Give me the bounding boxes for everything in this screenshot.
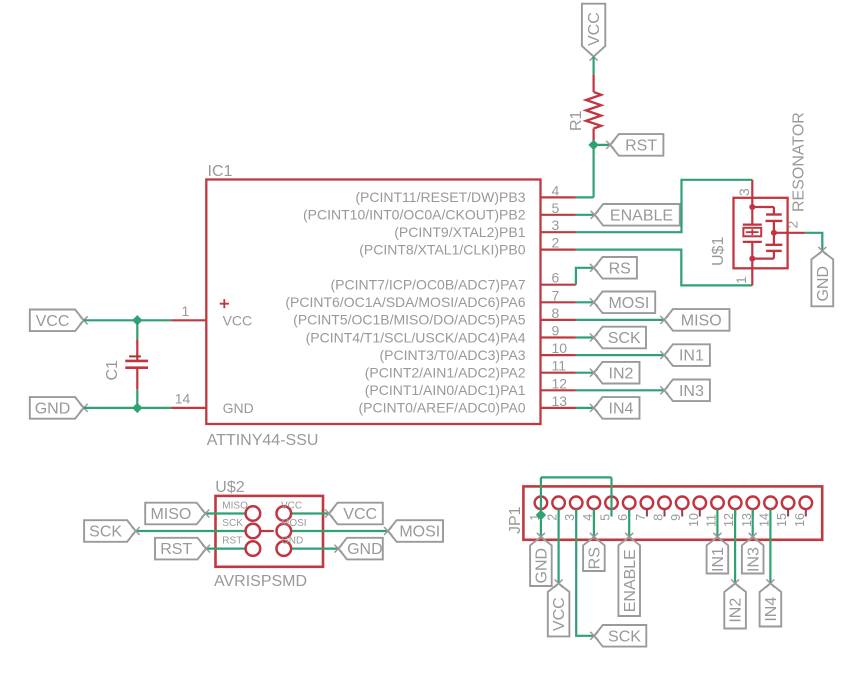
pin stub JP1 pin 8: [664, 509, 666, 516]
net flag SCK left: [84, 520, 136, 542]
svg-text:(PCINT3/T0/ADC3)PA3: (PCINT3/T0/ADC3)PA3: [380, 347, 526, 363]
pin stub SCK pad: [260, 530, 274, 532]
supply symbol VCC top: [582, 4, 605, 57]
pin stub JP1 pin 5: [611, 509, 613, 516]
svg-text:MOSI: MOSI: [399, 524, 440, 541]
junction node RST: [588, 140, 598, 150]
wire pin5 to ENABLE: [576, 214, 595, 216]
wire junction to RST flag: [594, 144, 611, 146]
pad circle left row3: [246, 541, 261, 556]
pad circle JP1 pin 3: [570, 497, 583, 510]
wire C1 bottom: [136, 389, 138, 408]
pad circle right row3: [277, 541, 292, 556]
svg-text:8: 8: [652, 514, 666, 521]
svg-text:14: 14: [175, 391, 191, 407]
supply flag GND right: [811, 251, 833, 306]
pin 14 stub IC1 (GND): [171, 407, 206, 409]
svg-text:GND: GND: [534, 548, 551, 584]
wire GND row: [291, 547, 338, 549]
pad circle left row2: [246, 524, 261, 539]
svg-text:8: 8: [552, 305, 560, 321]
pin 13 stub IC1: [541, 407, 576, 409]
wire pin9 to SCK: [576, 336, 594, 338]
svg-text:VCC: VCC: [343, 506, 377, 523]
pin stub JP1 pin 9: [681, 509, 683, 516]
svg-text:9: 9: [552, 323, 560, 339]
net flag GND right: [338, 538, 382, 560]
net flag RST left: [155, 538, 206, 560]
wire pin12 to IN2: [734, 509, 736, 583]
svg-text:GND: GND: [815, 266, 832, 302]
svg-text:(PCINT7/ICP/OC0B/ADC7)PA7: (PCINT7/ICP/OC0B/ADC7)PA7: [330, 277, 525, 293]
junction dot pin2: [771, 230, 777, 236]
svg-text:IN2: IN2: [609, 365, 634, 382]
internal capacitor lower: [766, 244, 783, 246]
svg-text:VCC: VCC: [551, 597, 568, 631]
svg-text:IN3: IN3: [679, 383, 704, 400]
net flag IN1 (JP1 pin11): [707, 537, 729, 574]
pad circle JP1 pin 15: [782, 497, 795, 510]
svg-text:(PCINT4/T1/SCL/USCK/ADC4)PA4: (PCINT4/T1/SCL/USCK/ADC4)PA4: [306, 329, 526, 345]
svg-text:(PCINT2/AIN1/ADC2)PA2: (PCINT2/AIN1/ADC2)PA2: [365, 365, 526, 381]
svg-text:16: 16: [793, 513, 807, 527]
svg-text:U$2: U$2: [215, 479, 244, 496]
net flag GND (JP1 pin1): [530, 537, 552, 586]
svg-text:R1: R1: [568, 110, 585, 131]
net flag RST: [610, 134, 663, 156]
pad circle JP1 pin 14: [764, 497, 777, 510]
svg-text:AVRISPSMD: AVRISPSMD: [214, 573, 307, 590]
svg-text:RST: RST: [222, 536, 242, 547]
pad circle JP1 pin 13: [747, 497, 760, 510]
junction node GND/C1: [132, 403, 142, 413]
pin stub JP1 pin 14: [770, 509, 772, 516]
pad circle JP1 pin 11: [711, 497, 724, 510]
resonator pin 3 stub: [751, 180, 753, 198]
svg-text:IC1: IC1: [208, 163, 233, 180]
junction node pin1: [536, 510, 546, 520]
pad circle JP1 pin 1: [535, 497, 548, 510]
net flag IN4: [594, 397, 640, 419]
svg-text:7: 7: [634, 514, 648, 521]
net flag MOSI: [594, 292, 655, 314]
net flag MISO: [664, 309, 729, 331]
wire C1 top: [136, 320, 138, 339]
net flag RS: [594, 257, 637, 279]
svg-text:(PCINT10/INT0/OC0A/CKOUT)PB2: (PCINT10/INT0/OC0A/CKOUT)PB2: [303, 207, 526, 223]
svg-text:IN3: IN3: [745, 547, 762, 572]
svg-text:(PCINT1/AIN0/ADC1)PA1: (PCINT1/AIN0/ADC1)PA1: [365, 382, 526, 398]
net flag IN4 (JP1 pin14): [760, 583, 782, 626]
net flag ENABLE: [595, 204, 680, 226]
svg-text:IN4: IN4: [609, 401, 634, 418]
wire pin7 to MOSI: [576, 301, 594, 303]
pin 11 stub IC1: [541, 372, 576, 374]
svg-text:(PCINT8/XTAL1/CLKI)PB0: (PCINT8/XTAL1/CLKI)PB0: [359, 241, 525, 257]
net flag IN3: [664, 380, 710, 402]
net flag VCC (JP1 pin2): [548, 583, 570, 636]
pin stub JP1 pin 13: [752, 509, 754, 516]
pin 4 stub IC1: [541, 196, 576, 198]
net flag IN2: [594, 362, 640, 384]
svg-text:2: 2: [552, 235, 560, 251]
wire pin10 to IN1: [576, 354, 664, 356]
wire VCC to pin1: [84, 319, 171, 321]
pin stub JP1 pin 3: [575, 509, 577, 516]
connector JP1 body: [523, 486, 822, 539]
capacitor branch top link: [752, 206, 774, 208]
pad circle JP1 pin 16: [800, 497, 813, 510]
svg-text:RS: RS: [609, 260, 631, 277]
svg-text:10: 10: [687, 513, 701, 527]
net flag VCC right: [329, 503, 383, 525]
pad circle right row2: [277, 524, 292, 539]
svg-text:RST: RST: [625, 138, 657, 155]
resonator pin 2: [774, 232, 788, 234]
capacitor C1: [136, 339, 138, 360]
pin stub JP1 pin 10: [699, 509, 701, 516]
pad circle JP1 pin 4: [588, 497, 601, 510]
svg-text:3: 3: [552, 217, 560, 233]
svg-text:13: 13: [552, 393, 568, 409]
pin stub JP1 pin 12: [734, 509, 736, 516]
svg-text:10: 10: [552, 340, 568, 356]
svg-text:ENABLE: ENABLE: [610, 207, 673, 224]
junction node VCC/C1: [132, 315, 142, 325]
svg-text:IN1: IN1: [679, 348, 704, 365]
svg-text:GND: GND: [281, 536, 303, 547]
net flag MISO left: [145, 503, 205, 525]
wire SCK row: [136, 530, 246, 532]
wire resonator pin2 to GND: [805, 233, 822, 251]
svg-text:(PCINT5/OC1B/MISO/DO/ADC5)PA5: (PCINT5/OC1B/MISO/DO/ADC5)PA5: [293, 312, 526, 328]
wire pin6 to ENABLE: [628, 509, 630, 537]
net flag IN1: [664, 344, 710, 366]
svg-text:(PCINT6/OC1A/SDA/MOSI/ADC6)PA6: (PCINT6/OC1A/SDA/MOSI/ADC6)PA6: [285, 294, 525, 310]
svg-text:MOSI: MOSI: [281, 518, 307, 529]
svg-text:U$1: U$1: [710, 237, 727, 266]
wire pin3 XTAL2 to resonator pin3: [576, 180, 752, 232]
net flag MOSI right: [388, 520, 443, 542]
pin 12 stub IC1: [541, 389, 576, 391]
pad circle JP1 pin 12: [729, 497, 742, 510]
svg-text:12: 12: [552, 375, 568, 391]
pad circle JP1 pin 9: [676, 497, 689, 510]
pin 7 stub IC1: [541, 301, 576, 303]
net flag SCK (JP1 pin3): [594, 625, 646, 647]
wire pin6 to RS: [576, 268, 594, 285]
svg-text:3: 3: [736, 188, 752, 196]
pad circle left row1: [246, 506, 261, 521]
wire pin11 to IN1: [716, 509, 718, 537]
svg-text:(PCINT9/XTAL2)PB1: (PCINT9/XTAL2)PB1: [394, 224, 525, 240]
svg-text:IN4: IN4: [763, 597, 780, 622]
pad circle JP1 pin 8: [658, 497, 671, 510]
wire pin8 to MISO: [576, 319, 664, 321]
pin stub JP1 pin 15: [787, 509, 789, 516]
svg-text:SCK: SCK: [608, 330, 641, 347]
wire pin11 to IN2: [576, 372, 594, 374]
pin stub JP1 pin 7: [646, 509, 648, 516]
pin 9 stub IC1: [541, 336, 576, 338]
svg-text:JP1: JP1: [507, 506, 524, 534]
pin stub JP1 pin 6: [628, 509, 630, 516]
svg-text:1: 1: [733, 276, 749, 284]
pin 6 stub IC1: [541, 284, 576, 286]
svg-text:11: 11: [552, 358, 567, 374]
wire pin1 to pin5 over-route: [541, 476, 612, 478]
svg-text:ATTINY44-SSU: ATTINY44-SSU: [207, 432, 319, 449]
svg-text:RESONATOR: RESONATOR: [790, 112, 807, 212]
pad circle JP1 pin 2: [552, 497, 565, 510]
net flag SCK: [594, 327, 646, 349]
wire pin12 to IN3: [576, 389, 664, 391]
pin 10 stub IC1: [541, 354, 576, 356]
wire pin13 to IN3: [752, 509, 754, 537]
svg-text:MISO: MISO: [150, 506, 191, 523]
wire RST row: [206, 547, 246, 549]
wire pin1 through pad: [540, 497, 542, 537]
svg-text:2: 2: [784, 221, 800, 229]
wire pin13 to IN4: [576, 407, 594, 409]
pin 8 stub IC1: [541, 319, 576, 321]
connector U$2 body: [216, 496, 324, 567]
pin 2 stub IC1: [541, 249, 576, 251]
net flag RS (JP1 pin4): [583, 537, 605, 571]
svg-text:RST: RST: [160, 541, 192, 558]
resonator U$1 body: [734, 198, 788, 268]
svg-text:VCC: VCC: [223, 313, 253, 329]
wire pin3 to SCK: [576, 509, 594, 636]
capacitor branch bottom link: [752, 258, 774, 260]
svg-text:(PCINT0/AREF/ADC0)PA0: (PCINT0/AREF/ADC0)PA0: [359, 400, 526, 416]
pad circle JP1 pin 6: [623, 497, 636, 510]
pin stub JP1 pin 11: [717, 509, 719, 516]
svg-text:GND: GND: [223, 400, 254, 416]
pin 3 stub IC1: [541, 231, 576, 233]
net flag IN2 (JP1 pin12): [724, 583, 746, 628]
svg-text:GND: GND: [347, 541, 383, 558]
svg-text:MISO: MISO: [222, 501, 248, 512]
wire VCC row: [291, 512, 329, 514]
svg-text:SCK: SCK: [608, 628, 641, 645]
svg-text:IN2: IN2: [728, 598, 745, 623]
crystal branch: [751, 198, 753, 225]
svg-text:7: 7: [552, 287, 560, 303]
wire MISO row: [205, 512, 245, 514]
svg-text:1: 1: [182, 303, 190, 319]
svg-text:VCC: VCC: [281, 501, 302, 512]
svg-text:MOSI: MOSI: [608, 295, 649, 312]
IC IC1 ATTINY44 body: [206, 180, 540, 425]
svg-text:IN1: IN1: [710, 547, 727, 572]
svg-text:5: 5: [552, 200, 560, 216]
svg-text:MISO: MISO: [681, 313, 722, 330]
net flag ENABLE (JP1 pin6): [618, 537, 640, 616]
pad circle JP1 pin 7: [641, 497, 654, 510]
resistor R1: [592, 75, 594, 92]
junction dot top: [749, 204, 755, 210]
svg-text:6: 6: [552, 270, 560, 286]
svg-text:VCC: VCC: [36, 313, 70, 330]
junction dot bottom: [749, 256, 755, 262]
net flag IN3 (JP1 pin13): [742, 537, 764, 574]
svg-text:4: 4: [552, 182, 560, 198]
svg-text:SCK: SCK: [222, 518, 243, 529]
svg-text:C1: C1: [104, 360, 121, 381]
pin 5 stub IC1: [541, 214, 576, 216]
pin stub JP1 pin 4: [593, 509, 595, 516]
svg-text:SCK: SCK: [89, 524, 122, 541]
resonator pin 1 stub: [751, 268, 753, 285]
wire pin14 to IN4: [769, 509, 771, 583]
pin 1 stub IC1 (VCC): [171, 319, 206, 321]
svg-text:RS: RS: [587, 547, 604, 569]
svg-text:15: 15: [775, 513, 789, 527]
wire VCC to R1: [592, 57, 594, 75]
supply flag VCC left: [30, 310, 84, 332]
pin stub JP1 pin 2: [558, 509, 560, 516]
pad circle right row1: [277, 506, 292, 521]
supply flag GND left: [30, 397, 84, 419]
pad circle JP1 pin 10: [694, 497, 707, 510]
svg-text:9: 9: [669, 514, 683, 521]
plus mark VCC pin: [220, 299, 229, 308]
internal capacitor upper: [766, 213, 782, 215]
wire RST down to pin4: [592, 145, 594, 198]
pin stub JP1 pin 1: [540, 509, 542, 516]
pin stub JP1 pin 16: [805, 509, 807, 516]
wire GND to pin14: [84, 407, 171, 409]
svg-text:(PCINT11/RESET/DW)PB3: (PCINT11/RESET/DW)PB3: [355, 189, 525, 205]
wire pin4 to RS: [593, 509, 595, 537]
svg-text:GND: GND: [35, 401, 71, 418]
svg-text:VCC: VCC: [586, 12, 603, 46]
pad circle JP1 pin 5: [605, 497, 618, 510]
wire MOSI row: [291, 530, 388, 532]
svg-text:ENABLE: ENABLE: [622, 549, 639, 612]
wire pin2 to VCC: [557, 509, 559, 583]
wire pin2 XTAL1 to resonator pin1: [576, 250, 752, 286]
